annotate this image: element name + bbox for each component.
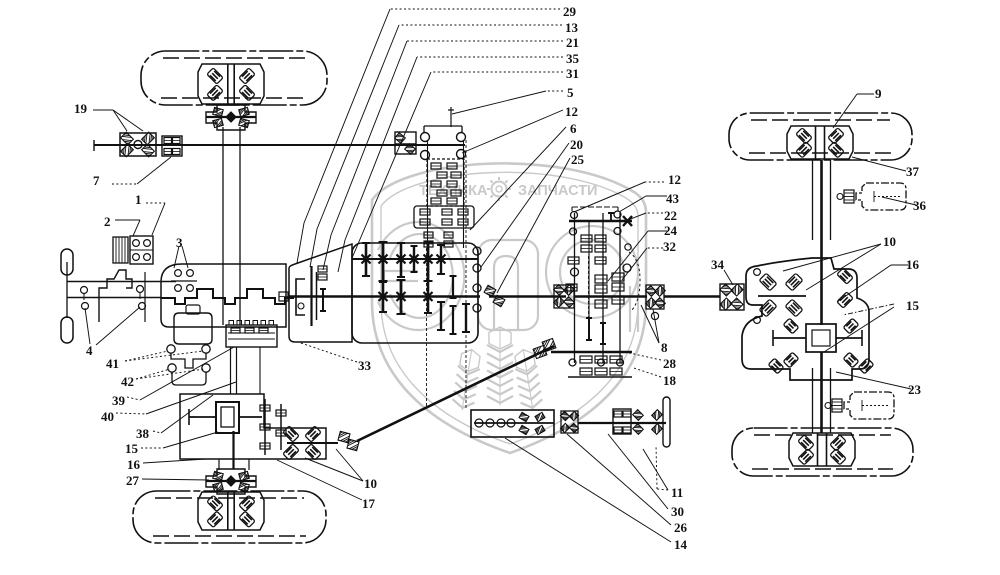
pto coupling <box>561 411 578 433</box>
label 7 leader <box>112 183 137 185</box>
svg-text:3: 3 <box>176 235 183 250</box>
label 26 leader <box>567 434 671 525</box>
svg-text:33: 33 <box>358 358 372 373</box>
svg-text:42: 42 <box>121 374 134 389</box>
label 12 leader <box>462 110 563 153</box>
watermark letter 9 <box>546 226 638 318</box>
label 40 leader <box>116 413 146 414</box>
watermark shield outline <box>372 163 646 453</box>
range box shift fork <box>588 256 590 333</box>
svg-text:28: 28 <box>663 356 677 371</box>
gears lower <box>437 302 445 330</box>
label 43 leader <box>646 195 667 197</box>
final drive front top wheel <box>206 105 256 130</box>
front weights / tie rod ends <box>61 249 73 275</box>
svg-text:2: 2 <box>104 214 111 229</box>
label 19 leader <box>93 109 113 111</box>
clutch housing <box>289 244 352 342</box>
svg-text:30: 30 <box>671 504 684 519</box>
final drive front bottom wheel <box>206 469 256 494</box>
coupling after gearbox <box>484 285 496 296</box>
label 25 leader <box>497 158 570 293</box>
rear axle housing <box>742 258 869 380</box>
main shaft out of range box <box>574 295 647 297</box>
svg-text:39: 39 <box>112 393 126 408</box>
range box gear rows mid <box>595 275 607 283</box>
svg-text:40: 40 <box>101 409 114 424</box>
engine output collar <box>279 292 288 301</box>
u-joint coupling at transfer box <box>533 345 547 358</box>
front axle bevel set <box>283 426 299 442</box>
rear bevel gears upper <box>759 273 777 291</box>
front pto corrugated (2) <box>113 237 128 263</box>
watermark letter P <box>478 240 538 330</box>
label 39 leader <box>127 397 140 400</box>
coupling before range box <box>554 285 574 308</box>
svg-text:ТЕХНИКА: ТЕХНИКА <box>419 183 488 199</box>
label 14 leader <box>505 438 671 542</box>
svg-text:25: 25 <box>571 152 585 167</box>
range box bottom row 2 <box>580 368 592 375</box>
front axle kingpin shaft upper <box>222 127 224 325</box>
main shaft to range box <box>489 295 566 297</box>
label 23 leader <box>836 372 911 389</box>
crankshaft line <box>161 289 294 304</box>
label 10a leader <box>305 458 363 481</box>
gearbox housing <box>352 243 478 343</box>
svg-text:21: 21 <box>566 35 579 50</box>
brake chamber (36) <box>856 183 906 210</box>
pto bearing pairs (11) <box>633 410 644 421</box>
label 16b leader <box>891 264 908 266</box>
svg-text:12: 12 <box>565 104 578 119</box>
label 1 leader <box>146 202 165 204</box>
front drive shaft <box>94 144 465 146</box>
range box top shaft (43/22) <box>569 220 632 223</box>
front axle gearbox w/ teeth <box>226 325 277 347</box>
front axle center bracket <box>99 270 132 322</box>
label 6 leader <box>470 127 566 230</box>
svg-text:43: 43 <box>666 191 680 206</box>
range box gear rows upper <box>581 235 592 242</box>
svg-text:15: 15 <box>125 441 139 456</box>
control levers (42) <box>168 364 176 372</box>
range box right dotted bracket <box>629 252 640 311</box>
range box mid circles <box>623 264 631 272</box>
svg-text:13: 13 <box>565 20 579 35</box>
svg-text:5: 5 <box>567 85 574 100</box>
svg-text:10: 10 <box>883 234 896 249</box>
upper cluster pin (5) <box>450 107 452 127</box>
pto hidden shaft lines <box>426 248 428 408</box>
steering knuckle pins (4) <box>81 287 88 294</box>
svg-text:17: 17 <box>362 496 376 511</box>
pto end disc <box>663 397 670 447</box>
upper cluster lower gears <box>424 232 433 238</box>
front axle beam <box>67 281 176 283</box>
gearbox output circles <box>473 247 481 255</box>
label 35 leader <box>417 56 563 58</box>
upper cluster gear column <box>427 159 464 206</box>
timing gears (3) <box>175 270 182 277</box>
front axle drop gears <box>264 399 266 455</box>
rear differential <box>806 324 836 352</box>
svg-text:7: 7 <box>93 173 100 188</box>
range box bottom shaft <box>551 351 632 353</box>
label 13 leader <box>399 24 562 26</box>
label 30 leader <box>608 434 668 509</box>
gearbox input shaft <box>289 295 480 297</box>
front drive engage unit <box>395 132 416 154</box>
svg-text:23: 23 <box>908 382 922 397</box>
upper cluster bracket <box>424 125 462 127</box>
label 38 leader <box>153 431 161 433</box>
label 36 leader <box>882 197 916 205</box>
svg-text:22: 22 <box>664 208 677 223</box>
label 24 leader <box>648 230 667 232</box>
gear mesh marks top <box>362 255 371 264</box>
svg-text:29: 29 <box>563 4 577 19</box>
watermark letter E <box>378 222 464 330</box>
label 8 leader <box>641 305 659 343</box>
label 10b leader <box>783 244 881 271</box>
front transfer case housing <box>180 394 326 459</box>
hub rear bottom wheel <box>789 433 855 466</box>
svg-text:19: 19 <box>74 101 88 116</box>
label 21 leader <box>407 40 563 42</box>
svg-text:11: 11 <box>671 485 683 500</box>
label 2 leader <box>115 219 140 221</box>
svg-text:32: 32 <box>663 239 676 254</box>
svg-text:4: 4 <box>86 343 93 358</box>
svg-text:27: 27 <box>126 473 140 488</box>
label 18 leader <box>634 368 661 377</box>
label 4 leader <box>85 308 90 344</box>
svg-text:26: 26 <box>674 520 688 535</box>
u-joint coupling front <box>338 431 350 442</box>
svg-text:8: 8 <box>661 340 668 355</box>
label 37 leader <box>852 157 906 171</box>
tire front-left (bottom) <box>133 491 326 543</box>
label 33 leader <box>298 342 357 362</box>
watermark gear icon <box>492 182 507 197</box>
label 27 leader <box>142 479 209 480</box>
engine block <box>161 264 286 327</box>
label 42 leader <box>136 369 170 379</box>
propeller shaft to front axle <box>357 346 554 441</box>
label 41 leader <box>125 351 168 361</box>
gearbox top shaft <box>352 258 478 260</box>
watermark wheat sheaf <box>451 348 482 412</box>
label 28 leader <box>625 352 661 360</box>
svg-text:24: 24 <box>664 223 678 238</box>
front pto gear box (1) <box>130 236 153 264</box>
label 17 leader <box>277 460 362 500</box>
front differential <box>216 402 239 433</box>
rear axle vertical shaft lower <box>812 368 814 433</box>
rear axle vertical shaft upper <box>812 160 814 240</box>
pto reduction unit (30) <box>613 409 631 434</box>
svg-text:6: 6 <box>570 121 577 136</box>
label 9 leader <box>857 93 874 95</box>
svg-text:12: 12 <box>668 172 681 187</box>
svg-text:41: 41 <box>106 356 119 371</box>
svg-text:16: 16 <box>906 257 920 272</box>
label 15a leader <box>141 447 163 449</box>
tire front-left (top) <box>141 51 327 105</box>
tire rear-right (bottom) <box>732 428 913 476</box>
gears main shaft <box>379 282 387 312</box>
control levers (41) <box>167 345 175 353</box>
gear mesh marks main <box>379 292 388 301</box>
tire rear-right (top) <box>729 113 912 160</box>
svg-text:35: 35 <box>566 51 580 66</box>
rear right bevel <box>837 268 853 284</box>
label 29 leader <box>390 8 560 10</box>
clutch discs <box>296 279 305 315</box>
label 5 leader <box>546 90 563 92</box>
range box gear rows lower <box>595 300 607 308</box>
label 34 leader <box>724 270 733 285</box>
shaft to rear axle <box>664 295 720 297</box>
shaft from gearbox to transfer case <box>230 347 232 394</box>
label 22 leader <box>646 212 663 214</box>
svg-text:14: 14 <box>674 537 688 552</box>
hub front top wheel <box>198 64 264 104</box>
svg-text:16: 16 <box>127 457 141 472</box>
label 12b leader <box>645 181 664 183</box>
hub front bottom wheel <box>198 492 264 530</box>
label 15b leader <box>843 304 894 315</box>
label 20 leader <box>481 143 569 267</box>
svg-text:36: 36 <box>913 198 927 213</box>
svg-text:20: 20 <box>570 137 583 152</box>
range box shafts <box>574 213 576 363</box>
label 16a leader <box>143 459 206 463</box>
front axle vertical shaft lower <box>232 431 234 469</box>
svg-text:15: 15 <box>906 298 920 313</box>
pto housing box <box>471 410 554 437</box>
rear diff bevels <box>783 318 799 334</box>
svg-text:37: 37 <box>906 164 920 179</box>
hydraulic pump (40) <box>174 313 212 344</box>
label 31 leader <box>431 71 563 73</box>
svg-text:34: 34 <box>711 257 725 272</box>
svg-text:1: 1 <box>135 192 142 207</box>
hub rear top wheel <box>787 126 853 159</box>
svg-text:9: 9 <box>875 86 882 101</box>
upper cluster lower box <box>414 206 474 228</box>
svg-text:ЗАПЧАСТИ: ЗАПЧАСТИ <box>518 183 597 199</box>
input coupling (34) <box>720 284 744 310</box>
label 3 leader <box>174 246 179 268</box>
upper cluster shafts <box>427 140 429 248</box>
gears top shaft <box>362 243 370 276</box>
svg-text:18: 18 <box>663 373 677 388</box>
range box top bracket <box>572 206 618 208</box>
coupling 8 <box>646 285 664 309</box>
coupling (7) <box>162 136 182 156</box>
pto shaft <box>578 422 666 424</box>
svg-text:38: 38 <box>136 426 150 441</box>
label 11 leader <box>657 489 668 490</box>
brake chamber rear (23 area) <box>844 392 894 419</box>
svg-text:31: 31 <box>566 66 579 81</box>
svg-text:10: 10 <box>364 476 377 491</box>
label 32 leader <box>647 247 663 249</box>
front drive clutch housing (19) <box>120 133 156 156</box>
